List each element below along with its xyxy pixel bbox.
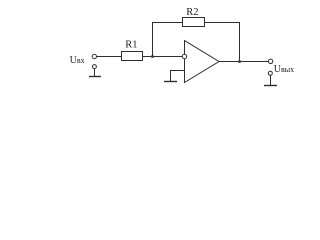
- wire non-inverting input: [171, 71, 185, 82]
- wire input to R1: [96, 56, 121, 58]
- label R1: [125, 39, 137, 50]
- svg-text:R2: R2: [186, 7, 198, 18]
- svg-text:Uвх: Uвх: [70, 55, 85, 66]
- op-amp U1: [185, 41, 220, 83]
- ground input: [89, 76, 101, 78]
- node Uвх label: [70, 55, 85, 66]
- inverting input bubble: [182, 54, 186, 58]
- ground op-amp non-inverting: [164, 81, 177, 83]
- resistor R2: [183, 18, 205, 27]
- wire R1 to op-amp inverting input: [143, 56, 183, 58]
- svg-text:R1: R1: [125, 39, 137, 50]
- wire output common stem: [270, 75, 272, 85]
- svg-text:Uвых: Uвых: [274, 64, 294, 75]
- label R2: [186, 7, 198, 18]
- terminal output common: [268, 71, 272, 75]
- terminal input common: [92, 65, 96, 69]
- wire feedback right vertical: [205, 23, 240, 62]
- node Uвых label: [274, 64, 294, 75]
- node junction output: [238, 60, 241, 63]
- resistor R1: [122, 52, 143, 61]
- wire feedback left vertical: [153, 23, 183, 57]
- wire output: [219, 61, 269, 63]
- ground output: [264, 85, 277, 87]
- terminal output signal: [268, 59, 272, 63]
- terminal input signal: [92, 54, 96, 58]
- node junction input: [151, 55, 154, 58]
- wire input common stem: [94, 69, 96, 77]
